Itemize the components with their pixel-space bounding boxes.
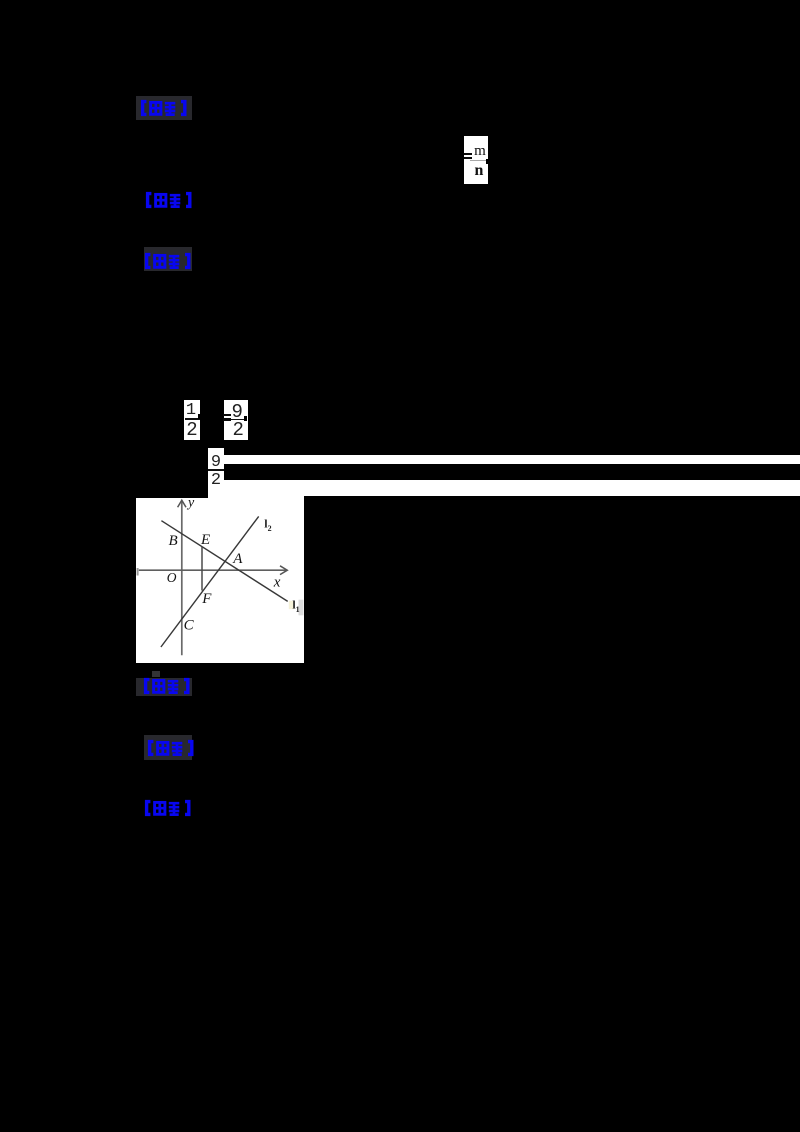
svg-text:E: E <box>200 532 210 548</box>
svg-text:B: B <box>169 533 178 549</box>
svg-text:F: F <box>201 591 212 607</box>
svg-text:2: 2 <box>268 524 272 533</box>
svg-text:1: 1 <box>296 605 300 614</box>
svg-text:C: C <box>184 618 195 634</box>
svg-text:y: y <box>186 498 195 511</box>
svg-text:A: A <box>232 551 243 567</box>
svg-text:O: O <box>167 570 177 585</box>
svg-text:x: x <box>273 574 281 590</box>
